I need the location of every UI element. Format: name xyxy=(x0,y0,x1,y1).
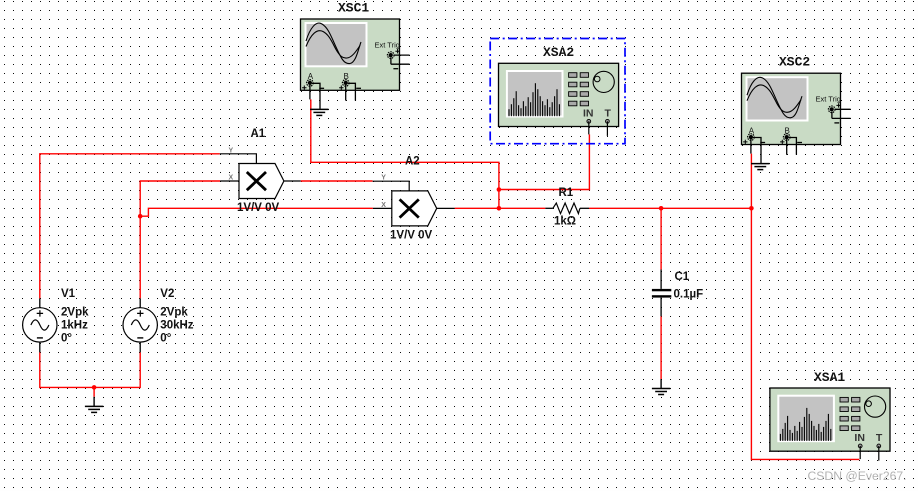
ground below XSC2 xyxy=(751,164,769,170)
svg-text:1kHz: 1kHz xyxy=(61,319,88,331)
svg-text:CSDN @Ever267.: CSDN @Ever267. xyxy=(808,469,907,483)
svg-text:A1: A1 xyxy=(251,128,266,140)
svg-text:Ext Trig: Ext Trig xyxy=(816,95,841,104)
svg-text:2Vpk: 2Vpk xyxy=(160,306,188,318)
pin XSC1 A+ xyxy=(309,85,311,100)
wire V2+ to A1 X input xyxy=(140,181,220,298)
pin XSC1 B- xyxy=(348,83,356,100)
svg-text:C1: C1 xyxy=(675,271,690,283)
svg-text:Ext Trig: Ext Trig xyxy=(375,41,400,50)
pin V2 plus xyxy=(139,298,141,307)
svg-text:0.1µF: 0.1µF xyxy=(674,289,704,301)
ground below V1 V2 xyxy=(85,397,103,413)
ground below C1 xyxy=(652,379,670,394)
pin XSA2 IN xyxy=(588,121,590,134)
multiplier A2 xyxy=(373,175,455,226)
selection box around XSA2 xyxy=(490,39,625,144)
pin XSC2 B- xyxy=(789,138,797,155)
svg-text:A2: A2 xyxy=(405,156,420,168)
junction C1 tap node xyxy=(659,206,664,211)
wire XSC2 channel A down to XSA1 IN xyxy=(751,154,859,460)
resistor R1 xyxy=(545,203,589,214)
pin XSC2 A+ xyxy=(750,139,752,154)
wire A2 output to R1 left xyxy=(455,207,546,209)
junction XSC2 tap node xyxy=(749,206,754,211)
pin XSC1 B+ xyxy=(345,85,347,101)
junction V2 tap node xyxy=(138,214,143,219)
pin A1 X xyxy=(220,180,239,182)
wire R1 right to XSC2 column xyxy=(589,207,751,209)
svg-text:IN: IN xyxy=(583,108,594,120)
pin XSC1 A- to ground xyxy=(312,83,320,109)
wire node V2 tap to A2 X input xyxy=(140,208,373,216)
svg-text:V2: V2 xyxy=(160,288,174,300)
svg-text:X: X xyxy=(381,202,386,209)
svg-text:R1: R1 xyxy=(559,187,574,199)
svg-text:1kΩ: 1kΩ xyxy=(554,216,576,228)
wire XSC1 channel A down right to A2 output node xyxy=(311,99,499,208)
pin A1 Y xyxy=(220,154,257,164)
wire V1+ to A1 Y input xyxy=(40,154,220,299)
pin XSA2 T xyxy=(606,121,608,136)
pin A2 output xyxy=(437,207,455,209)
svg-text:XSC2: XSC2 xyxy=(779,55,810,70)
wire ground stem bottom bus xyxy=(93,387,95,396)
svg-text:XSA2: XSA2 xyxy=(543,45,574,60)
wire XSA2 IN down left to node xyxy=(499,134,590,189)
svg-text:XSA1: XSA1 xyxy=(814,370,845,385)
svg-text:XSC1: XSC1 xyxy=(338,1,369,16)
oscilloscope XSC1 xyxy=(301,19,410,109)
pin V1 minus xyxy=(39,342,41,352)
svg-text:V1: V1 xyxy=(61,288,76,300)
pin A2 X xyxy=(373,207,392,209)
multiplier A1 xyxy=(220,147,301,198)
capacitor C1 xyxy=(652,270,671,317)
pin A1 output xyxy=(284,180,301,182)
svg-text:Y: Y xyxy=(229,147,234,154)
wire node to C1 top xyxy=(660,208,662,269)
wire C1 bottom to ground xyxy=(660,316,662,379)
wire V1- V2- bottom bus xyxy=(40,352,140,387)
junction A2 output node xyxy=(497,206,502,211)
pin A2 Y xyxy=(373,181,410,191)
oscilloscope XSC2 xyxy=(742,73,851,163)
source V1 xyxy=(23,298,57,352)
svg-text:30kHz: 30kHz xyxy=(160,319,193,331)
svg-text:1V/V 0V: 1V/V 0V xyxy=(237,202,280,214)
svg-text:2Vpk: 2Vpk xyxy=(61,306,89,318)
spectrum analyzer XSA1 xyxy=(770,388,890,461)
pin XSC2 A- to ground xyxy=(753,138,761,164)
pin XSC2 B+ xyxy=(786,139,788,155)
svg-text:0°: 0° xyxy=(160,332,171,344)
svg-text:0°: 0° xyxy=(61,332,72,344)
wire A1 output to A2 Y input xyxy=(301,180,373,182)
junction bottom bus ground node xyxy=(92,385,97,390)
svg-text:X: X xyxy=(229,175,234,182)
svg-text:T: T xyxy=(605,108,612,120)
svg-text:1V/V 0V: 1V/V 0V xyxy=(390,229,433,241)
svg-text:Y: Y xyxy=(381,175,386,182)
spectrum analyzer XSA2 xyxy=(499,63,619,136)
pin V2 minus xyxy=(139,342,141,352)
ground below XSC1 xyxy=(310,109,328,115)
source V2 xyxy=(123,298,157,352)
pin V1 plus xyxy=(39,298,41,307)
junction XSA2 tap node xyxy=(497,187,502,192)
